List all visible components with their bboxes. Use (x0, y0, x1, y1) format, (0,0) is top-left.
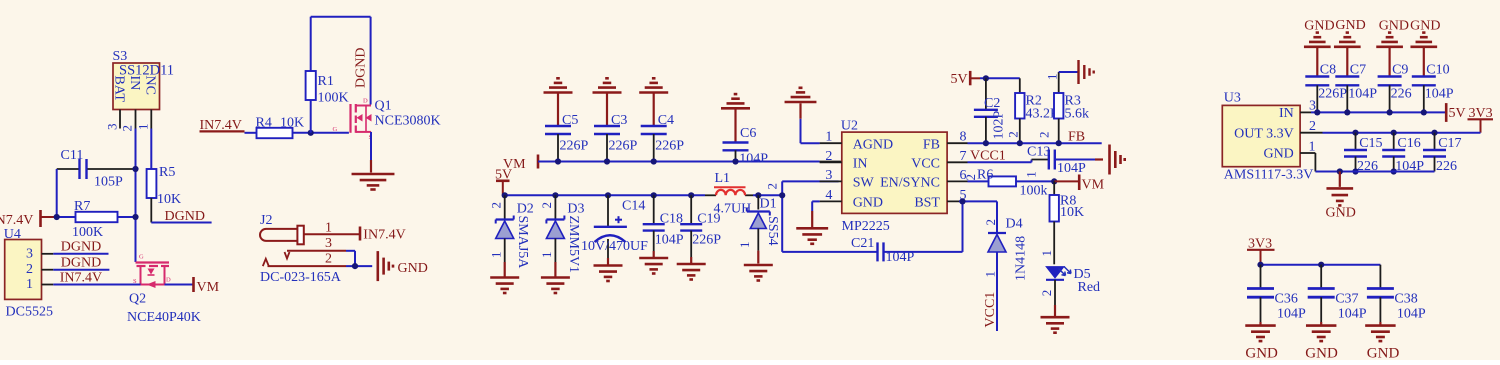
svg-text:Q2: Q2 (129, 292, 146, 307)
svg-text:GND: GND (1335, 18, 1365, 33)
svg-text:SS54: SS54 (765, 216, 780, 246)
svg-text:GND: GND (1379, 19, 1409, 34)
svg-text:C17: C17 (1438, 136, 1461, 151)
svg-text:C3: C3 (611, 113, 627, 128)
svg-text:2: 2 (825, 149, 832, 164)
svg-text:BAT: BAT (112, 76, 127, 103)
svg-text:1: 1 (737, 242, 752, 249)
svg-text:G: G (139, 254, 144, 261)
svg-text:1: 1 (1044, 74, 1059, 81)
svg-text:1: 1 (26, 277, 33, 292)
svg-text:VCC: VCC (911, 157, 940, 172)
svg-text:DGND: DGND (354, 48, 369, 88)
svg-text:VCC1: VCC1 (983, 292, 998, 328)
svg-text:226P: 226P (560, 139, 589, 154)
svg-text:D3: D3 (567, 202, 584, 217)
svg-text:MP2225: MP2225 (842, 219, 890, 234)
svg-text:D1: D1 (760, 197, 777, 212)
svg-text:100K: 100K (318, 91, 349, 106)
svg-text:1: 1 (1024, 171, 1039, 178)
svg-text:1: 1 (489, 252, 504, 259)
svg-text:GND: GND (1326, 206, 1356, 221)
svg-text:GND: GND (1304, 19, 1334, 34)
svg-text:10K: 10K (157, 192, 181, 207)
svg-text:4.7UH: 4.7UH (714, 202, 752, 217)
svg-text:IN: IN (1279, 106, 1294, 121)
svg-text:C13: C13 (1027, 145, 1050, 160)
svg-text:NCE40P40K: NCE40P40K (127, 310, 201, 325)
svg-text:1: 1 (1309, 139, 1316, 154)
svg-text:8: 8 (960, 130, 967, 145)
svg-text:GND: GND (1367, 346, 1400, 361)
svg-text:2: 2 (1309, 119, 1316, 134)
svg-text:NCE3080K: NCE3080K (375, 114, 441, 129)
svg-text:2: 2 (26, 262, 33, 277)
svg-text:VM: VM (1082, 178, 1105, 193)
svg-text:C2: C2 (984, 96, 1000, 111)
svg-text:GND: GND (1305, 346, 1338, 361)
svg-text:C9: C9 (1392, 63, 1408, 78)
svg-text:C37: C37 (1335, 292, 1358, 307)
svg-text:2: 2 (963, 174, 978, 181)
svg-text:C5: C5 (562, 113, 578, 128)
svg-text:3: 3 (26, 247, 33, 262)
svg-text:2: 2 (983, 219, 998, 226)
svg-text:Red: Red (1078, 280, 1101, 295)
svg-text:2: 2 (325, 252, 332, 267)
svg-text:R4: R4 (256, 116, 272, 131)
svg-text:Q1: Q1 (375, 99, 392, 114)
svg-text:IN7.4V: IN7.4V (60, 270, 102, 285)
svg-text:1: 1 (539, 252, 554, 259)
svg-text:100K: 100K (72, 225, 103, 240)
svg-text:C38: C38 (1394, 292, 1417, 307)
svg-text:C18: C18 (660, 212, 683, 227)
svg-text:104P: 104P (1425, 87, 1454, 102)
svg-text:FB: FB (923, 138, 940, 153)
svg-text:ZMM5V1: ZMM5V1 (566, 216, 581, 274)
svg-text:GND: GND (1263, 147, 1293, 162)
svg-text:104P: 104P (1348, 87, 1377, 102)
svg-text:AGND: AGND (853, 138, 893, 153)
svg-text:226: 226 (1391, 87, 1412, 102)
svg-text:C15: C15 (1359, 136, 1382, 151)
svg-text:C4: C4 (658, 113, 674, 128)
svg-text:OUT 3.3V: OUT 3.3V (1234, 126, 1294, 141)
svg-text:1N4148: 1N4148 (1014, 236, 1029, 281)
svg-text:GND: GND (398, 261, 428, 276)
svg-text:R1: R1 (318, 74, 334, 89)
svg-text:10K: 10K (1060, 205, 1084, 220)
svg-text:GND: GND (853, 196, 883, 211)
svg-text:L1: L1 (715, 171, 731, 186)
svg-text:100k: 100k (1020, 184, 1048, 199)
svg-text:3: 3 (325, 236, 332, 251)
svg-text:226P: 226P (655, 139, 684, 154)
svg-text:5.6k: 5.6k (1065, 107, 1090, 122)
svg-text:U2: U2 (841, 119, 858, 134)
svg-text:NC: NC (143, 76, 158, 95)
svg-text:VM: VM (197, 280, 220, 295)
svg-text:104P: 104P (1277, 307, 1306, 322)
svg-text:EN/SYNC: EN/SYNC (880, 176, 940, 191)
svg-text:2: 2 (120, 125, 135, 132)
svg-text:1: 1 (983, 271, 998, 278)
svg-text:7: 7 (960, 149, 967, 164)
svg-text:104P: 104P (739, 152, 768, 167)
svg-text:D: D (166, 277, 171, 284)
svg-text:104P: 104P (1397, 307, 1426, 322)
svg-text:DGND: DGND (165, 209, 205, 224)
svg-text:BST: BST (914, 196, 940, 211)
svg-text:IN7.4V: IN7.4V (0, 213, 33, 228)
svg-text:IN: IN (853, 157, 868, 172)
svg-text:IN: IN (127, 76, 142, 91)
svg-text:D4: D4 (1006, 217, 1023, 232)
svg-text:C16: C16 (1397, 136, 1420, 151)
svg-text:3: 3 (825, 168, 832, 183)
svg-text:AMS1117-3.3V: AMS1117-3.3V (1224, 168, 1314, 183)
svg-text:2: 2 (539, 202, 554, 209)
svg-text:105P: 105P (94, 175, 123, 190)
svg-text:1: 1 (325, 221, 332, 236)
svg-text:104P: 104P (1057, 161, 1086, 176)
svg-text:2: 2 (1037, 132, 1052, 139)
svg-text:2: 2 (489, 202, 504, 209)
svg-text:DC5525: DC5525 (6, 305, 53, 320)
svg-text:C8: C8 (1320, 63, 1336, 78)
svg-text:R7: R7 (74, 199, 90, 214)
svg-text:1: 1 (825, 130, 832, 145)
svg-text:G: G (333, 126, 338, 133)
svg-text:10K: 10K (280, 116, 304, 131)
svg-text:IN7.4V: IN7.4V (363, 227, 405, 242)
svg-text:DGND: DGND (61, 240, 101, 255)
svg-text:SW: SW (853, 176, 875, 191)
svg-text:C7: C7 (1350, 63, 1366, 78)
svg-text:FB: FB (1068, 130, 1085, 145)
svg-text:DC-023-165A: DC-023-165A (260, 270, 342, 285)
svg-text:VCC1: VCC1 (970, 149, 1006, 164)
svg-text:104P: 104P (886, 250, 915, 265)
svg-text:SMAJ5A: SMAJ5A (515, 216, 530, 270)
svg-text:102P: 102P (991, 110, 1006, 139)
svg-text:1: 1 (1039, 250, 1054, 257)
svg-text:C21: C21 (851, 236, 874, 251)
svg-text:D: D (363, 98, 368, 105)
svg-text:R6: R6 (977, 168, 993, 183)
svg-text:226P: 226P (692, 233, 721, 248)
svg-text:3: 3 (105, 124, 120, 131)
svg-text:GND: GND (1410, 19, 1440, 34)
svg-text:C36: C36 (1275, 292, 1298, 307)
svg-text:104P: 104P (1338, 307, 1367, 322)
svg-text:C10: C10 (1426, 63, 1449, 78)
svg-text:J2: J2 (260, 213, 272, 228)
svg-text:U4: U4 (4, 227, 21, 242)
svg-text:5V: 5V (951, 72, 968, 87)
svg-text:4: 4 (825, 188, 832, 203)
svg-text:C6: C6 (740, 126, 756, 141)
svg-text:GND: GND (1245, 346, 1278, 361)
svg-text:226P: 226P (609, 139, 638, 154)
svg-text:226P: 226P (1318, 87, 1347, 102)
svg-text:DGND: DGND (61, 256, 101, 271)
svg-text:2: 2 (765, 183, 780, 190)
svg-text:10V/470UF: 10V/470UF (581, 239, 648, 254)
svg-text:D2: D2 (517, 202, 534, 217)
svg-text:104P: 104P (655, 233, 684, 248)
svg-text:226: 226 (1436, 159, 1457, 174)
svg-text:U3: U3 (1224, 91, 1241, 106)
svg-text:2: 2 (1039, 290, 1054, 297)
svg-text:1: 1 (136, 124, 151, 131)
svg-text:5V: 5V (1449, 106, 1466, 121)
svg-text:C14: C14 (622, 199, 645, 214)
svg-text:2: 2 (1006, 131, 1021, 138)
svg-text:R5: R5 (159, 165, 175, 180)
